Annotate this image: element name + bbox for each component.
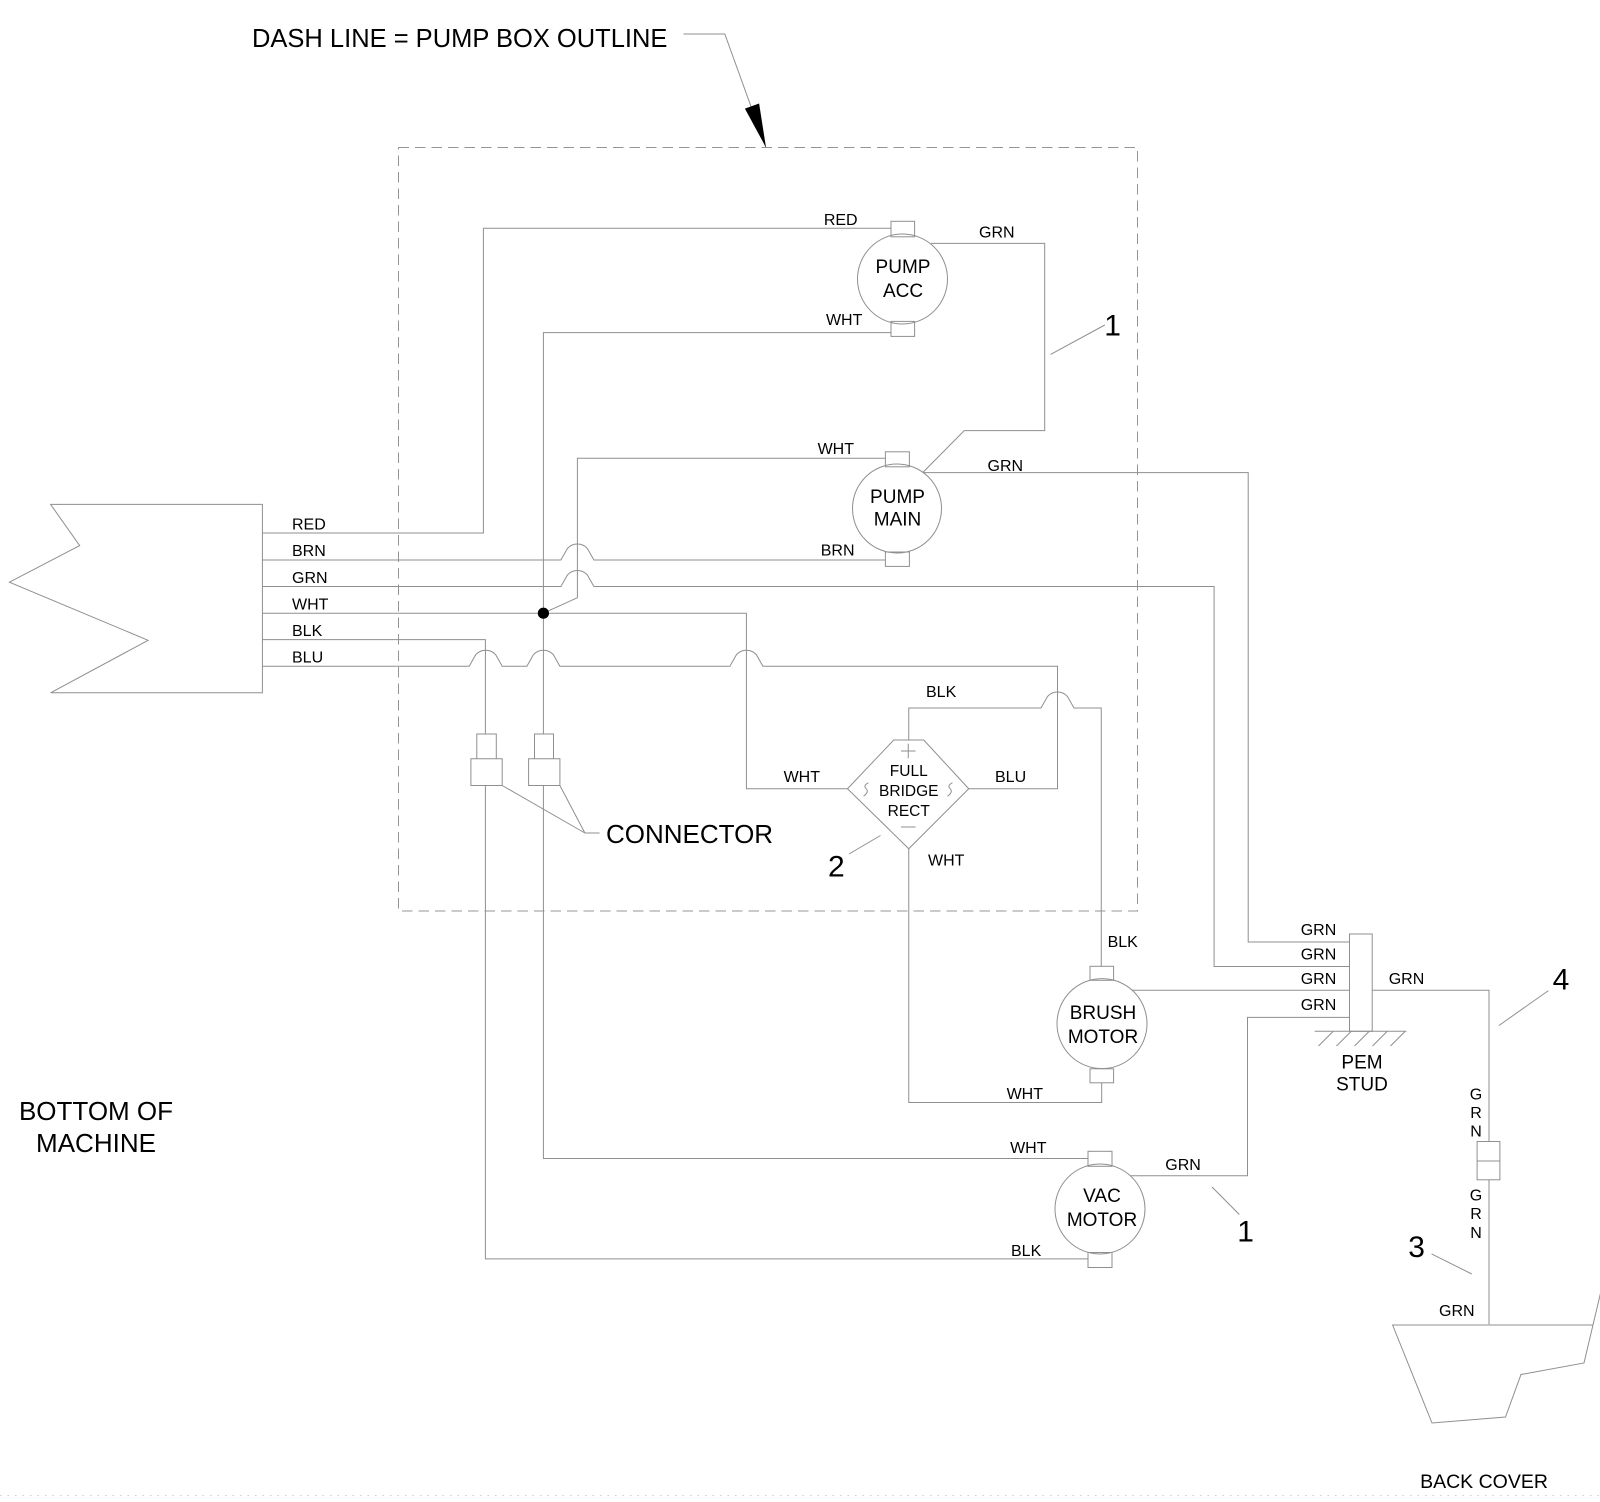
harness: bottom of machine cable bundle (9, 504, 262, 692)
rectifier U1: FULL BRIDGE RECT diamond (848, 740, 969, 849)
title arrowhead (745, 104, 766, 148)
ground symbol (1315, 1031, 1407, 1046)
svg-text:GRN: GRN (1165, 1157, 1201, 1174)
svg-text:BACK COVER: BACK COVER (1420, 1471, 1548, 1493)
rectifier plus mark (901, 744, 916, 758)
svg-text:GRN: GRN (979, 225, 1015, 242)
wire GRN stud to back cover (1372, 990, 1489, 1324)
svg-text:MOTOR: MOTOR (1067, 1210, 1137, 1231)
svg-text:BRN: BRN (821, 543, 855, 560)
svg-text:1: 1 (1104, 310, 1121, 343)
svg-text:CONNECTOR: CONNECTOR (606, 819, 773, 849)
motor VAC MOTOR (1055, 1164, 1145, 1254)
connector C1 (on BLK wire) (471, 734, 502, 786)
svg-text:GRN: GRN (1439, 1303, 1475, 1320)
motor PUMP MAIN (853, 464, 942, 553)
svg-text:GRN: GRN (1301, 997, 1337, 1014)
wire GRN BRUSH MOTOR to PEM stud #3 (1132, 989, 1350, 991)
svg-text:PEM: PEM (1341, 1053, 1382, 1074)
wire GRN from PUMP ACC joining PUMP MAIN GRN (923, 243, 1045, 472)
svg-text:GRN: GRN (1301, 922, 1337, 939)
svg-text:WHT: WHT (818, 441, 855, 458)
svg-text:VAC: VAC (1083, 1186, 1121, 1207)
connector leader lines (502, 786, 599, 834)
svg-text:BOTTOM OF: BOTTOM OF (19, 1096, 173, 1126)
svg-text:WHT: WHT (1007, 1086, 1044, 1103)
wire GRN from PUMP MAIN to PEM stud #1 (923, 473, 1350, 942)
svg-text:R: R (1470, 1105, 1482, 1122)
svg-text:GRN: GRN (988, 458, 1024, 475)
wire BLK rectifier top to BRUSH MOTOR (hop at 1057.5) (909, 692, 1102, 966)
fuse / inline connector on GRN wire (1477, 1142, 1500, 1180)
svg-text:PUMP: PUMP (870, 487, 925, 508)
pump box outline (dashed) (399, 148, 1138, 912)
wire WHT branch to PUMP ACC (543, 333, 891, 614)
motor BRUSH MOTOR (1057, 979, 1147, 1069)
svg-text:DASH LINE = PUMP BOX OUTLINE: DASH LINE = PUMP BOX OUTLINE (252, 25, 667, 53)
rectifier minus mark (901, 826, 916, 828)
svg-text:3: 3 (1408, 1231, 1425, 1264)
svg-text:2: 2 (828, 851, 845, 884)
svg-text:WHT: WHT (784, 769, 821, 786)
title leader wire (684, 34, 767, 148)
svg-text:N: N (1470, 1124, 1482, 1141)
PEM stud body (1350, 934, 1373, 1031)
connector C2 (on WHT wire) (529, 734, 560, 786)
svg-text:BRN: BRN (292, 543, 326, 560)
svg-text:BLK: BLK (1011, 1243, 1042, 1260)
svg-text:GRN: GRN (1301, 947, 1337, 964)
svg-text:ACC: ACC (883, 281, 923, 302)
svg-text:STUD: STUD (1336, 1075, 1388, 1096)
svg-text:1: 1 (1237, 1216, 1254, 1249)
junction dot (WHT node) (538, 608, 549, 619)
callout 3 (GRN to back cover) (1432, 1254, 1472, 1274)
faint bottom border dots (0, 1495, 1600, 1497)
svg-text:RED: RED (824, 212, 858, 229)
wire BLU (harness to rectifier right, hops at 485.7/543.4/746.4) (262, 650, 1057, 789)
wire BRN (harness to PUMP MAIN, hop at x=577) (262, 544, 885, 560)
svg-text:BLK: BLK (1108, 934, 1139, 951)
motor PUMP ACC (858, 234, 948, 324)
svg-text:WHT: WHT (826, 312, 863, 329)
callout 1 (top, GRN pumps) (1051, 325, 1105, 354)
rectifier AC squiggle right (948, 783, 953, 796)
svg-text:BLU: BLU (995, 769, 1026, 786)
wire GRN (harness to PEM stud #2, hop at x=577) (262, 571, 1349, 967)
back cover shape (1393, 1253, 1600, 1423)
svg-text:BRUSH: BRUSH (1070, 1003, 1137, 1024)
svg-text:GRN: GRN (1389, 971, 1425, 988)
svg-text:RED: RED (292, 517, 326, 534)
wire RED (harness to PUMP ACC) (262, 228, 891, 533)
callout 2 (rectifier) (849, 836, 881, 855)
svg-text:BLU: BLU (292, 650, 323, 667)
svg-text:RECT: RECT (888, 803, 931, 820)
svg-text:G: G (1470, 1087, 1482, 1104)
wire WHT rectifier bottom to BRUSH MOTOR bottom (909, 849, 1102, 1103)
svg-text:GRN: GRN (1301, 971, 1337, 988)
wire GRN VAC MOTOR to PEM stud #4 (1130, 1017, 1349, 1175)
svg-text:BLK: BLK (292, 623, 323, 640)
svg-text:FULL: FULL (890, 763, 928, 780)
callout 1 (bottom, GRN vac) (1212, 1187, 1239, 1215)
wire WHT branch down to VAC MOTOR (543, 613, 1088, 1158)
svg-text:G: G (1470, 1187, 1482, 1204)
svg-text:N: N (1470, 1225, 1482, 1242)
svg-text:WHT: WHT (928, 853, 965, 870)
wire WHT branch to PUMP MAIN (543, 458, 885, 613)
wire BLK (harness down to VAC MOTOR) (262, 640, 1088, 1259)
svg-text:WHT: WHT (1010, 1140, 1047, 1157)
svg-text:R: R (1470, 1206, 1482, 1223)
svg-text:MOTOR: MOTOR (1068, 1027, 1138, 1048)
callout 4 (GRN from stud) (1499, 991, 1549, 1026)
svg-text:4: 4 (1553, 964, 1570, 997)
svg-text:MACHINE: MACHINE (36, 1128, 156, 1158)
svg-text:GRN: GRN (292, 570, 328, 587)
svg-text:PUMP: PUMP (876, 257, 931, 278)
wire WHT (harness to rectifier left) (262, 613, 847, 789)
svg-text:BRIDGE: BRIDGE (879, 783, 938, 800)
svg-text:WHT: WHT (292, 597, 329, 614)
svg-text:MAIN: MAIN (874, 510, 922, 531)
svg-text:BLK: BLK (926, 684, 957, 701)
rectifier AC squiggle left (864, 783, 869, 796)
